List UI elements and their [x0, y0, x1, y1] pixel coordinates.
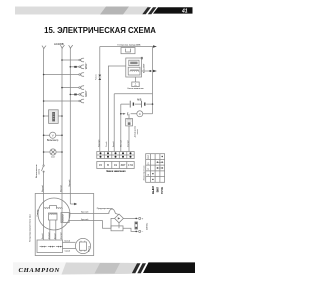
- node branch5: [70, 94, 72, 96]
- terminal DC plus: [139, 217, 141, 219]
- svg-text:Свеча зажигания: Свеча зажигания: [127, 88, 143, 90]
- wire bus L1 x=43.6: [43, 50, 45, 165]
- generator connector box: [37, 240, 63, 253]
- svg-text:~230В: ~230В: [84, 62, 87, 69]
- svg-text:Черный: Черный: [60, 185, 63, 192]
- svg-text:Красный: Красный: [81, 210, 88, 213]
- wire sub winding leg 2: [55, 220, 57, 240]
- node battery right: [152, 103, 154, 105]
- svg-text:ВКЛ: ВКЛ: [156, 187, 160, 192]
- node branch6: [43, 100, 45, 102]
- svg-text:Красный: Красный: [81, 218, 88, 221]
- svg-text:В: В: [107, 164, 109, 167]
- socket contact 3: [79, 74, 81, 76]
- node branch1: [61, 59, 63, 61]
- svg-text:15. ЭЛЕКТРИЧЕСКАЯ СХЕМА: 15. ЭЛЕКТРИЧЕСКАЯ СХЕМА: [44, 26, 156, 35]
- wire bus L3 x=70.3: [69, 49, 71, 204]
- node voltmeter right: [61, 134, 63, 136]
- footer black bar: [143, 262, 195, 273]
- svg-text:15: 15: [99, 164, 102, 167]
- rotor circle: [75, 238, 90, 253]
- connector mark branch2: [74, 66, 77, 68]
- svg-text:Серый: Серый: [65, 249, 71, 252]
- socket contact 4: [79, 87, 81, 89]
- wire charging top: [100, 46, 153, 48]
- node branch2: [70, 66, 72, 68]
- arrow ignition out: [153, 70, 157, 73]
- header banner black slash 1: [142, 7, 151, 14]
- battery cell 2: [141, 101, 143, 108]
- footer mid slash: [95, 263, 121, 274]
- svg-text:Блок ИЗУ: Блок ИЗУ: [143, 63, 145, 73]
- node breaker left: [43, 115, 45, 117]
- starter wire: [121, 113, 153, 115]
- wire bus K1 x=99.8: [99, 47, 101, 152]
- fuse symbol: [109, 209, 119, 215]
- wire excitation lower: [69, 221, 111, 229]
- battery cell 1: [129, 101, 131, 108]
- lamp HL: [50, 149, 56, 155]
- voltmeter PV: [50, 132, 56, 138]
- svg-text:AC230В: AC230В: [54, 42, 64, 46]
- wire excitation to fuse: [69, 212, 109, 214]
- charging winding box: [121, 48, 135, 54]
- connector pin pair 1: [40, 246, 47, 248]
- ignition unit terminal mark: [141, 57, 143, 59]
- svg-text:Замок зажигания: Замок зажигания: [106, 171, 126, 173]
- ground arrow L3: [70, 203, 74, 205]
- svg-text:15: 15: [148, 161, 150, 164]
- svg-text:Датчик уровня: Датчик уровня: [134, 126, 136, 137]
- svg-text:Статор: Статор: [37, 209, 39, 217]
- wire connector to rotor 2: [63, 248, 76, 250]
- svg-text:Желтый: Желтый: [119, 140, 122, 147]
- svg-text:17: 17: [148, 167, 150, 170]
- wire bus L1 lower after switch: [43, 172, 45, 209]
- wire oil sensor stub: [128, 114, 130, 119]
- rectifier output connector: [111, 226, 123, 231]
- wire bus R x=152.5: [152, 47, 154, 114]
- connector pin pair 2: [48, 246, 55, 248]
- svg-text:17/4: 17/4: [128, 164, 133, 167]
- key connector contacts row2: [100, 156, 102, 158]
- generator box: [35, 194, 93, 256]
- node voltmeter left: [43, 134, 45, 136]
- node plus: [135, 218, 137, 220]
- node ignition bus: [149, 70, 151, 72]
- key position table grid: [146, 154, 165, 183]
- wire bus L2 x=62: [61, 49, 63, 208]
- svg-text:Красный: Красный: [97, 140, 100, 147]
- svg-text:Разъем: Разъем: [96, 74, 98, 80]
- stator sub winding box: [48, 213, 57, 220]
- terminal DC minus: [139, 230, 141, 232]
- header banner black slash 2: [148, 7, 157, 14]
- key terminal numbers: [99, 164, 133, 167]
- svg-text:CHAMPION: CHAMPION: [19, 267, 61, 274]
- wire sub winding leg 1: [49, 220, 51, 240]
- breaker QF wire: [44, 115, 62, 117]
- socket contact 5: [79, 94, 81, 96]
- footer logo panel: [13, 262, 68, 275]
- wire bus K4 x=120.8: [120, 104, 122, 151]
- socket contact 2: [79, 66, 81, 68]
- starter motor M: [137, 111, 143, 117]
- node lamp left: [43, 151, 45, 153]
- switch SA1 light switch: [43, 165, 44, 166]
- excitation winding box: [61, 213, 69, 223]
- wire bus K3 x=114.2: [113, 94, 115, 152]
- svg-text:41: 41: [181, 8, 188, 14]
- svg-text:масла: масла: [137, 129, 139, 134]
- rotor brushes: [79, 242, 86, 250]
- wire outlet branch 5: [70, 93, 78, 95]
- svg-text:Черный: Черный: [60, 233, 63, 239]
- header banner light grey bar: [15, 7, 149, 15]
- svg-text:+: +: [142, 217, 144, 221]
- connector pin pair 3: [56, 246, 63, 248]
- header banner mid grey slash: [100, 7, 129, 15]
- node branch4: [61, 87, 63, 89]
- node breaker right: [61, 115, 63, 117]
- svg-text:Черный: Черный: [68, 180, 71, 187]
- node minus: [135, 231, 137, 233]
- header banner black page tab: [153, 7, 193, 13]
- svg-text:Свет: Свет: [51, 156, 55, 158]
- wire rectifier bottom stub: [118, 222, 120, 228]
- wire bus K2 x=108.4: [108, 66, 125, 152]
- wire DC plus rail: [123, 217, 138, 219]
- key connector contacts row1: [100, 152, 132, 158]
- rectifier diamond: [115, 214, 124, 223]
- wire bus K5 x=129: [128, 126, 130, 152]
- svg-text:Черный: Черный: [41, 185, 44, 192]
- battery AKB wire: [121, 103, 153, 105]
- svg-text:АКБ: АКБ: [137, 98, 142, 101]
- lamp HL wire: [44, 151, 62, 153]
- terminal fork T2: [60, 45, 64, 49]
- wire connector to rotor 1: [63, 241, 76, 243]
- svg-text:Вольтметр: Вольтметр: [47, 140, 59, 142]
- stator circle: [38, 198, 70, 230]
- svg-text:Генератор заряда АКБ: Генератор заряда АКБ: [118, 43, 142, 46]
- svg-text:ПУСК: ПУСК: [160, 187, 164, 194]
- svg-text:С: С: [139, 112, 142, 116]
- svg-text:Черный: Черный: [127, 141, 130, 147]
- svg-text:~230В: ~230В: [84, 90, 87, 97]
- svg-text:Белый: Белый: [65, 240, 70, 243]
- wire main winding right drop: [61, 209, 63, 240]
- connector on K1: [98, 75, 101, 80]
- node lamp right: [61, 151, 63, 153]
- wire outlet branch 3: [44, 74, 79, 76]
- DC filter component: [135, 222, 138, 229]
- wire ignition out: [142, 70, 153, 72]
- ignition unit box: [126, 58, 142, 77]
- svg-text:Белый: Белый: [41, 234, 44, 239]
- footer grey bar: [62, 263, 138, 275]
- terminal fork T3: [69, 45, 73, 49]
- svg-text:ВЫКЛ: ВЫКЛ: [151, 186, 155, 194]
- breaker QF rocker: [52, 112, 55, 121]
- socket contact 1: [79, 59, 81, 61]
- wire outlet branch 1: [62, 59, 79, 61]
- svg-text:Синий: Синий: [105, 142, 108, 147]
- svg-text:Черный: Черный: [47, 233, 50, 239]
- connector block bottom wires: [43, 239, 45, 241]
- voltmeter PV wire: [44, 134, 62, 136]
- node starter left: [120, 113, 122, 115]
- svg-text:Белый: Белый: [112, 142, 115, 147]
- svg-text:Замок зажигания: Замок зажигания: [143, 166, 145, 181]
- stator main winding: [44, 206, 63, 209]
- starter connector pair: [123, 113, 125, 115]
- wire spark plug: [134, 77, 136, 82]
- breaker QF body: [49, 110, 59, 124]
- arrow charging out: [153, 45, 157, 48]
- wire outlet branch 4: [62, 87, 79, 89]
- key connector grid: [97, 152, 134, 159]
- svg-text:Белый: Белый: [53, 234, 56, 239]
- terminal fork T1: [42, 46, 46, 50]
- wire line3 horizontal: [114, 93, 152, 95]
- socket contact 6: [79, 100, 81, 102]
- ignition unit coil: [128, 67, 140, 75]
- spark plug box: [132, 82, 139, 87]
- wire main winding left drop: [43, 209, 45, 240]
- svg-text:−: −: [142, 230, 144, 234]
- ignition unit core: [129, 60, 139, 65]
- wire DC minus rail: [123, 228, 138, 231]
- connector mark branch5: [74, 94, 77, 96]
- svg-text:света: света: [38, 168, 40, 174]
- svg-text:V: V: [52, 133, 54, 137]
- wire rectifier left stub: [111, 218, 115, 228]
- svg-text:19: 19: [114, 164, 117, 167]
- svg-text:Ротор: Ротор: [89, 245, 91, 251]
- svg-text:Генератор переменного тока: Генератор переменного тока: [30, 213, 32, 242]
- wire outlet branch 2: [70, 66, 78, 68]
- oil sensor box: [126, 119, 133, 126]
- node branch3: [43, 74, 45, 76]
- key terminal boxes: [97, 162, 134, 169]
- svg-text:12В DC: 12В DC: [146, 222, 148, 230]
- footer black slash 1: [132, 263, 141, 273]
- table row labels: [148, 154, 150, 176]
- svg-text:30/7: 30/7: [148, 154, 150, 159]
- footer black slash 2: [137, 263, 146, 273]
- table position labels: [151, 186, 164, 194]
- svg-text:30/7: 30/7: [121, 164, 126, 167]
- table contact marks: [152, 156, 163, 180]
- svg-text:19: 19: [148, 173, 150, 176]
- wire outlet branch 6: [44, 100, 79, 102]
